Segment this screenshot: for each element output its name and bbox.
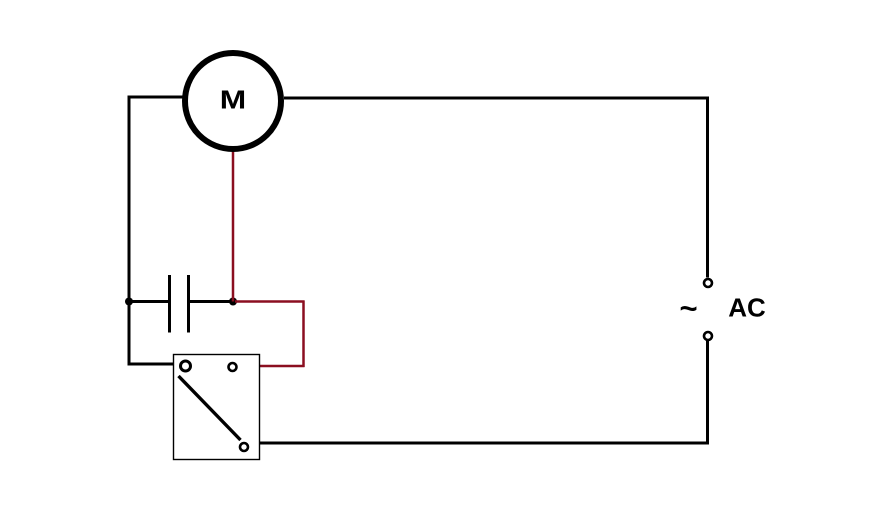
junction dot left node — [125, 298, 133, 306]
wire red from motor bottom to junction — [232, 150, 235, 302]
AC source top terminal — [704, 279, 712, 287]
capacitor C1 plate left — [168, 275, 171, 333]
wire top horizontal from motor to right rail — [284, 97, 709, 100]
switch S1 contact bottom — [240, 443, 248, 451]
capacitor C1 plate right — [187, 275, 190, 333]
wire right vertical down to AC top terminal — [706, 97, 709, 278]
motor M1 circle — [185, 53, 281, 149]
switch S1 lever arm — [179, 376, 241, 440]
wire red vertical down — [302, 301, 305, 368]
wire red horizontal from junction — [235, 300, 305, 303]
wire left horizontal from motor to left rail — [128, 96, 184, 99]
wire left vertical rail — [128, 96, 131, 366]
wire capacitor left lead — [129, 300, 168, 303]
svg-text:~: ~ — [679, 291, 697, 326]
svg-text:M: M — [220, 86, 246, 115]
wire capacitor right lead — [190, 300, 233, 303]
junction dot right node — [229, 298, 237, 306]
switch S1 box — [174, 355, 260, 460]
wire red horizontal into switch right side — [259, 365, 305, 368]
switch S1 contact top-left — [181, 361, 191, 371]
AC source bottom terminal — [704, 332, 712, 340]
switch S1 contact top-right — [229, 363, 237, 371]
wire bottom horizontal from switch to right rail — [259, 442, 709, 445]
svg-text:AC: AC — [728, 293, 766, 323]
wire from AC bottom terminal down — [706, 341, 709, 445]
wire left rail bottom horizontal into switch — [128, 363, 175, 366]
